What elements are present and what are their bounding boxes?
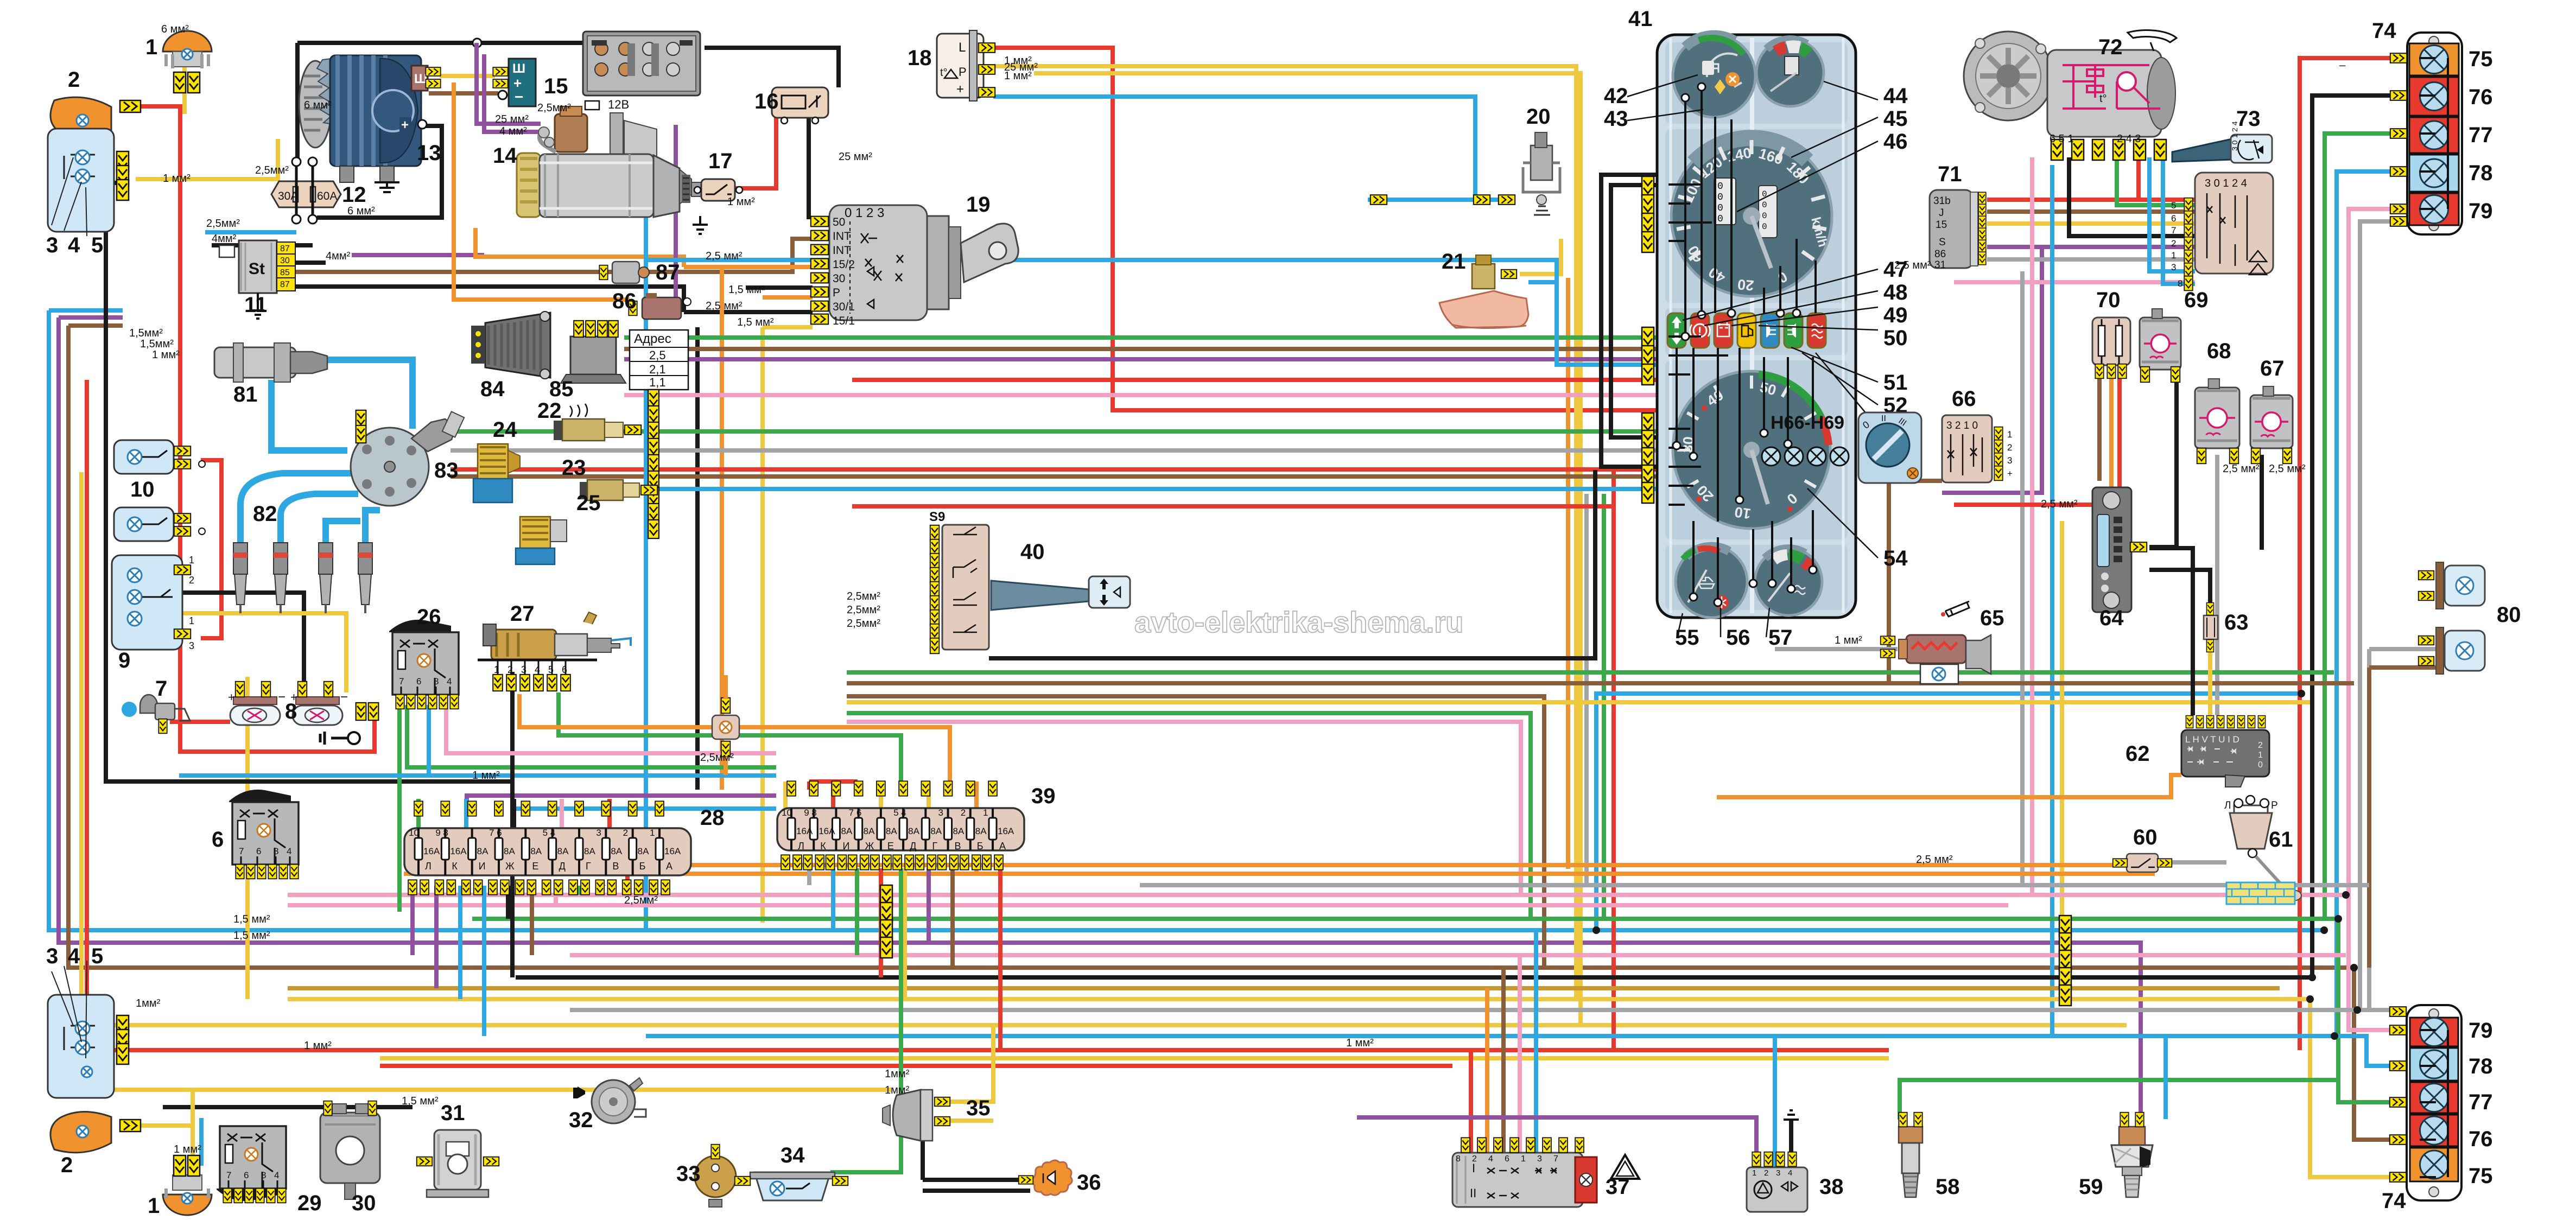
- svg-text:2,5мм²: 2,5мм²: [537, 102, 571, 114]
- svg-text:2,5мм²: 2,5мм²: [700, 752, 734, 764]
- svg-text:80: 80: [2497, 603, 2521, 627]
- svg-text:87: 87: [656, 260, 680, 284]
- wire black vertical ignition down: [695, 327, 700, 790]
- svg-text:7 6: 7 6: [489, 828, 502, 838]
- spark plug wire 82 b: [281, 494, 358, 545]
- svg-text:2,5 мм²: 2,5 мм²: [2041, 498, 2078, 510]
- svg-text:2,1: 2,1: [649, 363, 666, 376]
- svg-text:49: 49: [1883, 303, 1908, 327]
- cluster callout lines: [1627, 75, 1878, 637]
- distributor 83: [351, 411, 464, 506]
- svg-text:50: 50: [1883, 326, 1908, 350]
- svg-text:31: 31: [1934, 259, 1946, 271]
- svg-text:Е: Е: [887, 841, 894, 852]
- wire cyan from switch 59: [2163, 1036, 2168, 1119]
- svg-text:2: 2: [2258, 741, 2263, 750]
- svg-text:63: 63: [2224, 611, 2249, 634]
- wire stub hazard 37 pink: [1518, 955, 1522, 1153]
- svg-text:25: 25: [576, 491, 601, 515]
- svg-text:6 5 1: 6 5 1: [2050, 133, 2073, 145]
- lamp block 9: [112, 555, 194, 651]
- wiper relay block: [2171, 173, 2273, 290]
- cluster inner panels: [1665, 38, 1848, 613]
- svg-text:P: P: [959, 65, 967, 79]
- svg-text:1: 1: [983, 808, 988, 818]
- svg-text:38: 38: [1819, 1175, 1844, 1199]
- wire black fuse 63 up: [2149, 570, 2210, 614]
- wire cyan vertical from switch 17: [644, 200, 648, 930]
- wire fuse 39 stub 4: [879, 868, 883, 977]
- svg-text:К: К: [452, 861, 458, 872]
- microswitch 87: [599, 262, 649, 283]
- svg-text:1: 1: [148, 1194, 160, 1218]
- wire stub hazard 37 cyan: [1534, 930, 1538, 1153]
- wire gray motor 68 down: [2215, 455, 2219, 715]
- wire red 71 to relay block: [1987, 198, 2195, 202]
- svg-text:7: 7: [399, 676, 404, 687]
- svg-text:40: 40: [1020, 540, 1045, 564]
- svg-text:77: 77: [2469, 1090, 2493, 1114]
- wire yellow from switch 40: [847, 700, 2310, 704]
- wire fuse 28 top stub 1: [464, 799, 468, 828]
- junction dots right side: [2350, 964, 2358, 971]
- svg-text:28: 28: [700, 806, 725, 830]
- turn stalk 40: [991, 576, 1130, 610]
- wiper motor 30: [320, 1101, 380, 1199]
- wire green from relay 26: [399, 705, 776, 912]
- svg-text:12В: 12В: [608, 98, 629, 111]
- svg-text:7: 7: [2171, 225, 2176, 236]
- svg-text:3: 3: [1776, 1168, 1780, 1178]
- svg-text:К: К: [820, 841, 826, 852]
- svg-text:7: 7: [155, 677, 167, 701]
- wire black 4mm St area: [212, 243, 313, 247]
- wire brown to cluster: [624, 347, 1657, 351]
- svg-text:5 4: 5 4: [893, 808, 906, 818]
- wire gray bottom b: [570, 1008, 2357, 1012]
- svg-text:4 мм²: 4 мм²: [499, 125, 527, 137]
- svg-text:8А: 8А: [557, 846, 569, 856]
- svg-text:4: 4: [447, 676, 452, 687]
- svg-text:3 2 1 0: 3 2 1 0: [1946, 420, 1978, 431]
- svg-text:2: 2: [507, 664, 513, 675]
- svg-text:70: 70: [2096, 288, 2121, 312]
- svg-text:В: В: [955, 841, 961, 852]
- svg-text:6: 6: [212, 828, 224, 852]
- svg-text:44: 44: [1883, 84, 1908, 108]
- svg-text:Р: Р: [2271, 800, 2278, 811]
- svg-text:L: L: [959, 40, 966, 55]
- wire black cluster loop a: [1601, 175, 1657, 467]
- fuel sender 61: [2224, 796, 2301, 904]
- wire yellow 1mm to fuse 12: [136, 139, 278, 179]
- wire yellow 1mm from 18 long: [993, 66, 2393, 1177]
- voltage regulator 84: [471, 312, 550, 379]
- svg-text:4: 4: [68, 944, 80, 968]
- wire green vertical cluster: [1602, 494, 1606, 919]
- svg-text:3: 3: [46, 233, 58, 257]
- headlamp block 3 4 5 bottom: [48, 961, 129, 1098]
- svg-text:Л: Л: [2224, 800, 2231, 811]
- wire black long bottom: [516, 975, 2312, 980]
- wire green from switch 58: [1900, 1080, 2338, 1120]
- svg-text:0 1 2 3: 0 1 2 3: [845, 206, 884, 220]
- svg-text:1 мм²: 1 мм²: [1346, 1037, 1374, 1049]
- wire black cluster loop b: [1611, 185, 1657, 437]
- svg-text:81: 81: [233, 383, 258, 406]
- svg-text:1: 1: [494, 664, 499, 675]
- svg-text:83: 83: [434, 459, 459, 482]
- svg-text:2: 2: [68, 68, 80, 92]
- svg-text:1: 1: [2007, 429, 2012, 440]
- wire stub hazard 37 brown: [1501, 968, 1506, 1153]
- svg-text:6: 6: [562, 664, 567, 675]
- svg-text:2 4 3: 2 4 3: [2117, 133, 2141, 145]
- svg-text:26: 26: [417, 605, 441, 629]
- wire red to cluster lower: [451, 467, 1657, 472]
- svg-text:82: 82: [253, 502, 277, 526]
- svg-text:8А: 8А: [504, 846, 515, 856]
- svg-text:22: 22: [537, 399, 562, 423]
- svg-text:29: 29: [297, 1191, 322, 1215]
- wire pink from switch 27: [446, 693, 776, 753]
- wire green to lamp 34: [830, 868, 901, 1172]
- svg-text:Адрес: Адрес: [634, 332, 671, 346]
- svg-text:32: 32: [569, 1108, 593, 1132]
- svg-text:66: 66: [1952, 387, 1976, 411]
- svg-text:15/2: 15/2: [833, 258, 855, 271]
- svg-text:L H V T U I D: L H V T U I D: [2185, 734, 2239, 745]
- fuse 63: [2204, 603, 2218, 652]
- svg-text:16А: 16А: [423, 846, 440, 856]
- wire green to front lamp 77: [2325, 134, 2391, 919]
- svg-text:1,5 мм²: 1,5 мм²: [233, 913, 270, 925]
- wire purple 71 to relay block: [1942, 247, 2195, 493]
- svg-text:8А: 8А: [953, 826, 965, 836]
- svg-text:1: 1: [189, 615, 194, 626]
- svg-text:0: 0: [1717, 192, 1723, 203]
- svg-text:23: 23: [562, 456, 586, 480]
- ignition relay 27: [478, 612, 631, 691]
- connector pair engine: [356, 410, 366, 428]
- svg-text:3: 3: [2171, 262, 2176, 272]
- wire cyan to cluster lower: [646, 487, 1657, 491]
- wire pink long vertical right: [2030, 157, 2034, 895]
- wire stubs hazard 37: [1469, 1050, 1473, 1153]
- wire brown to cluster lower: [451, 474, 1657, 479]
- svg-text:0: 0: [1762, 200, 1767, 210]
- relay 6: [229, 790, 299, 879]
- wire green wiper motor: [2117, 157, 2195, 205]
- svg-text:2,5 мм²: 2,5 мм²: [706, 300, 743, 312]
- svg-text:48: 48: [1883, 281, 1908, 304]
- svg-text:2,5 мм²: 2,5 мм²: [2223, 463, 2260, 475]
- connector stack mid-bottom: [880, 885, 892, 906]
- turn switch 38: [1747, 1152, 1807, 1212]
- svg-text:1мм²: 1мм²: [885, 1084, 910, 1096]
- svg-text:0: 0: [2258, 760, 2263, 770]
- wire red 2.5mm heater: [1954, 365, 2120, 505]
- svg-text:1,1: 1,1: [649, 376, 666, 389]
- svg-text:t°: t°: [940, 67, 948, 79]
- svg-text:Ж: Ж: [505, 861, 515, 872]
- wire cyan wiper pair a: [2149, 157, 2195, 271]
- svg-text:8: 8: [274, 846, 278, 856]
- wire yellow bottom c: [380, 1056, 1889, 1060]
- svg-text:6 мм²: 6 мм²: [304, 99, 332, 111]
- wire red from sensor 18 to cluster: [993, 48, 1657, 410]
- front lamp cluster 74-79: [2390, 33, 2462, 234]
- svg-text:II: II: [1881, 414, 1886, 423]
- svg-text:1,5 мм²: 1,5 мм²: [233, 930, 270, 942]
- relay 29: [217, 1126, 286, 1203]
- wire green to cluster: [624, 335, 1657, 340]
- sidelight lamp 2 top: [50, 97, 141, 138]
- svg-text:4: 4: [287, 846, 291, 856]
- svg-text:1 мм²: 1 мм²: [1835, 634, 1862, 646]
- svg-text:P: P: [833, 287, 840, 299]
- svg-text:2,5мм²: 2,5мм²: [206, 218, 240, 230]
- coil to distributor wire: [310, 360, 413, 429]
- svg-text:S: S: [1939, 237, 1946, 248]
- cluster internal wiring: [1668, 87, 1816, 602]
- svg-text:Л: Л: [798, 841, 804, 852]
- svg-text:87: 87: [280, 280, 290, 289]
- inline lamp fuse: [712, 675, 739, 775]
- svg-text:25 мм²: 25 мм²: [1004, 61, 1038, 73]
- svg-text:74: 74: [2372, 19, 2396, 43]
- svg-text:Г: Г: [586, 861, 591, 872]
- wire size table: [630, 330, 688, 390]
- wire cyan above fuse 28: [514, 809, 776, 825]
- ground above switch 38: [1784, 1110, 1799, 1120]
- svg-text:86: 86: [612, 289, 637, 313]
- svg-text:А: А: [666, 861, 672, 872]
- wire yellow alternator to battery: [440, 74, 495, 78]
- fuel pump 33: [695, 1145, 736, 1207]
- svg-text:1 мм²: 1 мм²: [174, 1143, 201, 1155]
- fuse box 39: [777, 781, 1024, 869]
- wire orange 2.5mm to pin 15/2: [475, 228, 813, 267]
- wire fuse 39 stub 8: [974, 868, 979, 874]
- wire fuse 28 stub 6: [554, 886, 558, 905]
- wire fuse 39 stub 2: [831, 868, 835, 930]
- wire red bundle bottom long: [87, 380, 1889, 1050]
- svg-text:6: 6: [416, 676, 421, 687]
- wire fuse 39 stub 5: [903, 868, 907, 999]
- svg-text:2,5мм²: 2,5мм²: [624, 894, 658, 906]
- svg-text:Ш: Ш: [512, 61, 525, 76]
- svg-text:37: 37: [1606, 1175, 1630, 1199]
- svg-text:5 4: 5 4: [543, 828, 556, 838]
- svg-text:76: 76: [2469, 85, 2493, 109]
- wire fuse 39 stub 9: [998, 868, 1003, 1050]
- wire cyan from 18 to sensor 20: [993, 97, 1498, 200]
- svg-text:5: 5: [2171, 200, 2176, 211]
- wire cyan long to cluster: [646, 260, 1657, 365]
- svg-text:8А: 8А: [908, 826, 919, 836]
- svg-text:78: 78: [2469, 161, 2493, 185]
- svg-text:86: 86: [1934, 249, 1946, 260]
- svg-text:6 мм²: 6 мм²: [161, 23, 189, 35]
- svg-text:S9: S9: [929, 510, 945, 524]
- svg-text:3: 3: [189, 640, 194, 651]
- wire black motor 67 down: [2260, 455, 2264, 550]
- wire red S9 row: [852, 504, 1612, 509]
- cigarette icon 65: [1945, 601, 1969, 617]
- svg-text:77: 77: [2469, 123, 2493, 147]
- spark plug wire 82 a: [240, 473, 355, 545]
- svg-text:25 мм²: 25 мм²: [495, 113, 529, 125]
- svg-text:21: 21: [1442, 250, 1466, 274]
- cigarette lighter 65: [1881, 635, 1991, 684]
- headlamp block 3 4 5 top: [48, 129, 129, 236]
- svg-text:8А: 8А: [886, 826, 897, 836]
- water temp gauge 57: [1755, 548, 1822, 615]
- svg-text:2,5 мм²: 2,5 мм²: [1894, 259, 1931, 271]
- wire fuse 28 stub 1: [434, 886, 439, 988]
- svg-text:8А: 8А: [477, 846, 488, 856]
- heater switch 66 block: [1942, 415, 2013, 482]
- spark plug wire 82 d: [365, 510, 380, 545]
- wire brown from switch 40 b: [847, 696, 1544, 968]
- svg-text:15: 15: [1936, 219, 1947, 231]
- svg-text:2: 2: [189, 575, 194, 586]
- svg-text:1мм²: 1мм²: [136, 997, 161, 1009]
- fuse block 70: [2092, 317, 2130, 378]
- svg-text:2,5мм²: 2,5мм²: [847, 590, 880, 602]
- svg-text:−: −: [278, 690, 285, 704]
- wire fuse 39 top stub 0: [783, 781, 788, 808]
- svg-text:58: 58: [1936, 1175, 1960, 1199]
- svg-text:8: 8: [434, 676, 439, 687]
- wire fuse 28 top stub 0: [416, 799, 421, 828]
- wire yellow to lamp 35: [941, 1026, 993, 1102]
- wire gray to licence lamp 80: [2369, 649, 2440, 1010]
- svg-text:4: 4: [1488, 1154, 1493, 1164]
- svg-text:7: 7: [1553, 1154, 1558, 1164]
- wire stub hazard 37 orange: [1485, 988, 1489, 1153]
- wire cyan from relay 26: [179, 705, 776, 776]
- mount block 85: [561, 321, 626, 383]
- svg-text:Л: Л: [425, 861, 432, 872]
- svg-text:3: 3: [521, 664, 526, 675]
- svg-text:6: 6: [244, 1170, 249, 1180]
- svg-text:9 8: 9 8: [435, 828, 448, 838]
- wire orange vertical cluster: [1566, 278, 1570, 869]
- svg-text:1,5мм²: 1,5мм²: [129, 327, 163, 339]
- svg-text:1 мм²: 1 мм²: [304, 1040, 332, 1052]
- wire pink from switch 40: [847, 722, 1521, 895]
- wire red vertical cluster: [1611, 469, 1616, 1050]
- wire fuse 28 stub 4: [506, 886, 510, 919]
- wiper blade icon 72: [2128, 30, 2177, 51]
- courtesy lamp 8: [228, 682, 285, 725]
- svg-text:t°: t°: [2099, 93, 2107, 105]
- fusible link 12: [271, 157, 341, 224]
- svg-text:4мм²: 4мм²: [326, 250, 351, 262]
- svg-text:8А: 8А: [611, 846, 622, 856]
- svg-text:8А: 8А: [930, 826, 942, 836]
- wire black alternator plus: [317, 126, 442, 218]
- svg-text:10: 10: [782, 808, 792, 818]
- svg-text:72: 72: [2098, 35, 2123, 59]
- under-hood lamp 7: [122, 695, 190, 733]
- wire fuse 28 stub 7: [578, 886, 582, 895]
- wire brown alternator to battery minus: [429, 91, 498, 96]
- svg-text:1 мм²: 1 мм²: [727, 196, 755, 208]
- fuse 60: [2113, 854, 2172, 872]
- wire fuse 39 stub 1: [807, 868, 811, 885]
- wire fuse 28 stub 5: [530, 886, 534, 955]
- wire gray lighter 65: [1775, 647, 1898, 651]
- wire purple vertical ignition area: [674, 125, 678, 312]
- svg-text:8: 8: [261, 1170, 266, 1180]
- wire red horn 7 to lamps 8: [170, 720, 230, 724]
- wire pink rear lamp 79: [2349, 895, 2391, 1030]
- wire yellow lamp1 drop: [182, 64, 187, 114]
- junction battery top: [473, 39, 481, 47]
- reverse switch 59: [2111, 1113, 2153, 1197]
- svg-text:3: 3: [596, 828, 601, 838]
- coil secondary wire: [271, 380, 347, 450]
- svg-text:73: 73: [2236, 107, 2261, 131]
- svg-text:А: А: [999, 841, 1006, 852]
- svg-text:1: 1: [650, 828, 655, 838]
- svg-text:3: 3: [46, 944, 58, 968]
- svg-text:60: 60: [2133, 825, 2158, 849]
- wire purple to cluster: [624, 357, 1657, 361]
- svg-text:Б: Б: [977, 841, 984, 852]
- wire yellow second top: [1034, 73, 1581, 1025]
- svg-text:0: 0: [1762, 222, 1767, 232]
- svg-text:78: 78: [2469, 1054, 2493, 1078]
- wire pink to relay block pin8: [1954, 280, 2195, 284]
- wire fuse 39 stub 3: [855, 868, 859, 955]
- svg-text:Д: Д: [910, 841, 916, 852]
- wire green long bottom: [472, 919, 2393, 1102]
- heater motor 31: [417, 1130, 499, 1197]
- svg-text:15/1: 15/1: [833, 315, 855, 327]
- rear lamp cluster 74-79: [2390, 1005, 2461, 1200]
- svg-text:2: 2: [623, 828, 628, 838]
- svg-text:39: 39: [1031, 784, 1056, 808]
- svg-text:И: И: [842, 841, 849, 852]
- wire yellow from block 9: [182, 613, 346, 692]
- wire purple above fuse 28: [467, 796, 776, 809]
- wire black wiper motor down: [2069, 157, 2195, 236]
- svg-text:19: 19: [966, 193, 991, 217]
- wire black 62 to radio: [2149, 548, 2193, 715]
- svg-text:59: 59: [2079, 1175, 2103, 1199]
- wire yellow vertical from switch 66: [2060, 521, 2064, 999]
- wire yellow courtesy long: [245, 677, 250, 999]
- wire black 25mm relay16 down: [807, 117, 811, 219]
- wire cyan washer pump 21: [1528, 280, 1557, 284]
- svg-text:+: +: [401, 118, 409, 132]
- svg-text:25 мм²: 25 мм²: [839, 151, 872, 163]
- valve 86: [629, 293, 691, 319]
- wire brown fuse 70 down: [2097, 365, 2102, 481]
- svg-text:5: 5: [91, 233, 103, 257]
- svg-text:76: 76: [2469, 1127, 2493, 1151]
- wire green switch 27 right: [559, 692, 901, 790]
- svg-text:_: _: [2339, 55, 2346, 67]
- temp gauge sensor 22: [554, 404, 641, 441]
- wire gray front lamp 79b: [2360, 221, 2391, 1012]
- wire cyan from lamp 3-5 to bottom bundle: [49, 310, 2324, 930]
- wire brown to switch 66: [1889, 481, 1942, 685]
